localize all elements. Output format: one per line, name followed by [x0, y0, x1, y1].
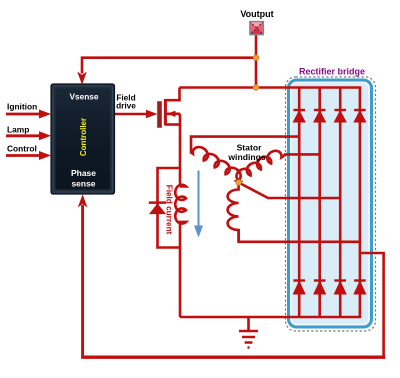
svg-text:drive: drive — [116, 101, 136, 111]
svg-text:Voutput: Voutput — [240, 9, 273, 19]
svg-text:Field current: Field current — [165, 185, 174, 235]
svg-text:Lamp: Lamp — [7, 125, 29, 135]
svg-text:Rectifier bridge: Rectifier bridge — [299, 67, 365, 77]
svg-text:Phase: Phase — [71, 168, 96, 178]
svg-text:Ignition: Ignition — [7, 102, 37, 112]
svg-text:Controller: Controller — [79, 118, 88, 156]
svg-text:Vsense: Vsense — [69, 92, 98, 102]
svg-text:Stator: Stator — [237, 143, 262, 153]
svg-text:sense: sense — [71, 179, 95, 189]
svg-text:Control: Control — [7, 144, 37, 154]
svg-text:windings: windings — [227, 152, 265, 162]
